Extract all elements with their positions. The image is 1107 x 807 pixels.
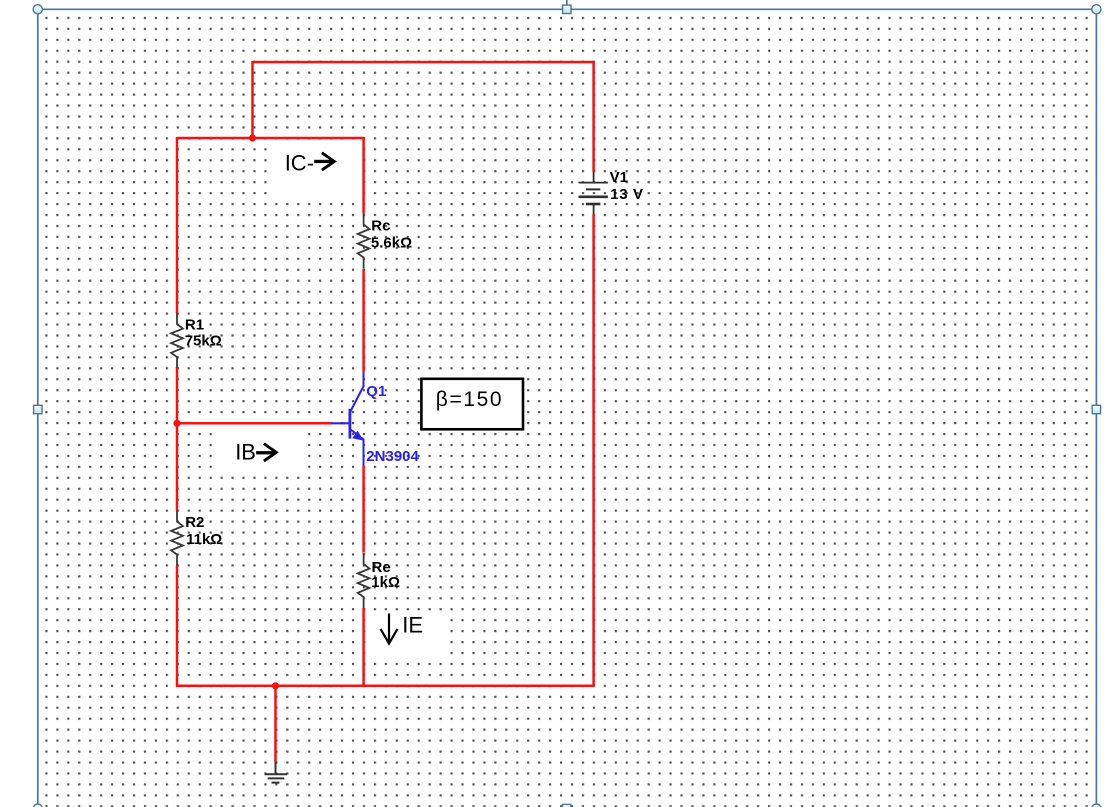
svg-text:75kΩ: 75kΩ [185, 333, 222, 350]
svg-text:IB: IB [235, 440, 256, 465]
svg-text:11kΩ: 11kΩ [186, 531, 222, 548]
svg-text:2N3904: 2N3904 [366, 448, 419, 465]
svg-text:β=150: β=150 [436, 388, 503, 411]
svg-text:13 V: 13 V [610, 186, 643, 203]
svg-text:IC-: IC- [285, 151, 314, 176]
svg-text:Rc: Rc [371, 218, 390, 235]
svg-text:5.6kΩ: 5.6kΩ [371, 235, 412, 252]
svg-text:R1: R1 [185, 317, 204, 334]
svg-text:1kΩ: 1kΩ [371, 574, 400, 591]
svg-text:R2: R2 [185, 514, 204, 531]
svg-text:V1: V1 [610, 169, 628, 186]
svg-text:Q1: Q1 [366, 383, 386, 400]
svg-text:IE: IE [402, 612, 423, 637]
